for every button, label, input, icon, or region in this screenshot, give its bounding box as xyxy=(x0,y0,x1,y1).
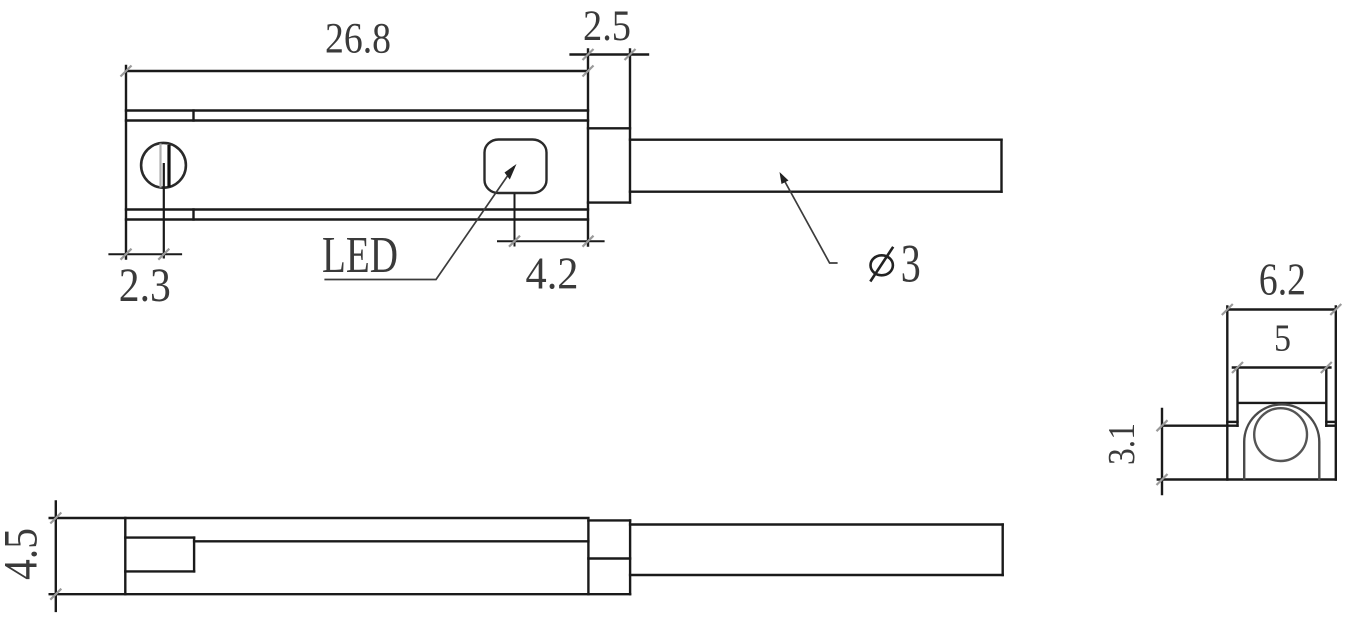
svg-text:LED: LED xyxy=(322,227,398,284)
top view body left edge xyxy=(125,66,127,259)
end view cavity top line xyxy=(1239,402,1325,404)
tail block top edge / 2.5 dimension line xyxy=(571,53,648,55)
svg-text:6.2: 6.2 xyxy=(1259,255,1306,305)
tail block bottom edge xyxy=(588,201,630,203)
cable top edge xyxy=(630,138,1002,140)
tick 2.5 right xyxy=(625,49,636,60)
end view top edge / 6.2 dimension line xyxy=(1227,308,1336,310)
side view screw pocket bottom xyxy=(125,570,194,572)
top view upper groove tick xyxy=(192,111,194,121)
tick 2.5 left xyxy=(583,49,594,60)
tail block right edge xyxy=(629,49,631,202)
side view block left edge xyxy=(587,520,589,594)
top view body bottom edge xyxy=(126,218,588,220)
tick 26.8 left xyxy=(121,66,132,77)
cable clamp arch xyxy=(1244,404,1319,480)
tick 26.8 right xyxy=(583,66,594,77)
tick 6.2 right xyxy=(1330,304,1341,315)
end view right wall xyxy=(1335,306,1337,479)
side view top edge xyxy=(50,517,589,519)
end view right notch lower xyxy=(1326,425,1336,427)
phi3 leader line xyxy=(781,175,838,264)
2.3 dimension line xyxy=(108,253,182,255)
svg-text:4.2: 4.2 xyxy=(526,249,579,299)
side view bottom edge xyxy=(50,593,630,595)
top view upper groove line 2 xyxy=(126,119,588,121)
svg-text:26.8: 26.8 xyxy=(325,16,391,63)
screw circle xyxy=(141,143,186,188)
tick 6.2 left xyxy=(1222,304,1233,315)
tick 3.1 bottom xyxy=(1157,474,1168,485)
3.1 dimension line xyxy=(1161,409,1163,494)
cable bottom edge xyxy=(630,190,1002,192)
end view left wall xyxy=(1226,306,1228,479)
svg-text:5: 5 xyxy=(1274,318,1291,360)
dimension text phi3 symbol circle xyxy=(871,255,893,275)
top view body top edge / 26.8 dimension line xyxy=(126,70,588,72)
svg-text:3.1: 3.1 xyxy=(1101,423,1143,465)
side view cable bottom xyxy=(630,574,1003,576)
screw center extension line xyxy=(163,163,165,259)
end view bottom edge xyxy=(1158,478,1336,480)
side view inner line xyxy=(194,540,588,542)
cable hole circle xyxy=(1254,408,1307,461)
side view cable right edge xyxy=(1002,525,1004,576)
tick 5 left xyxy=(1232,362,1243,373)
side view screw pocket right xyxy=(193,538,195,572)
top view lower groove tick xyxy=(192,210,194,220)
tick 4.2 right xyxy=(583,236,594,247)
tick 5 right xyxy=(1321,362,1332,373)
LED rounded square xyxy=(485,140,547,194)
tick 4.2 left xyxy=(509,236,520,247)
svg-text:2.5: 2.5 xyxy=(583,3,631,50)
end view right notch upper xyxy=(1326,421,1336,423)
end view left notch lower / 3.1 extension line xyxy=(1162,425,1238,427)
screw slot black line xyxy=(167,145,170,187)
top view upper groove line 1 xyxy=(126,109,588,111)
top view lower groove line xyxy=(126,208,588,210)
tick 2.3 right xyxy=(158,249,169,260)
tail block left edge xyxy=(587,49,589,245)
side view division line xyxy=(124,518,126,594)
phi3 leader arrowhead xyxy=(780,172,789,184)
tail block division line xyxy=(588,127,630,129)
side view block top edge xyxy=(588,519,630,521)
LED leader arrowhead xyxy=(505,164,517,180)
cable right edge xyxy=(1000,140,1002,192)
screw slot gray line xyxy=(159,144,161,188)
dimension text phi3 symbol slash xyxy=(870,247,893,282)
end view left notch upper xyxy=(1227,421,1237,423)
svg-text:4.5: 4.5 xyxy=(0,528,48,580)
4.2 dimension line xyxy=(497,240,605,242)
svg-text:3: 3 xyxy=(901,234,921,294)
side view cable top xyxy=(630,523,1003,525)
5 dimension line xyxy=(1233,366,1331,368)
side view left edge / 4.5 dimension line xyxy=(55,501,57,611)
LED bottom extension line xyxy=(514,194,516,247)
tick 2.3 left xyxy=(121,249,132,260)
side view block division xyxy=(588,557,630,559)
tick 3.1 top xyxy=(1157,420,1168,431)
tick 4.5 top xyxy=(50,513,61,524)
end view inner wall left xyxy=(1236,368,1238,426)
tick 4.5 bottom xyxy=(50,589,61,600)
svg-text:2.3: 2.3 xyxy=(119,259,171,312)
end view inner wall right xyxy=(1325,368,1327,426)
LED leader line xyxy=(324,167,514,280)
side view block right edge xyxy=(629,520,631,594)
side view screw pocket top xyxy=(125,536,194,538)
